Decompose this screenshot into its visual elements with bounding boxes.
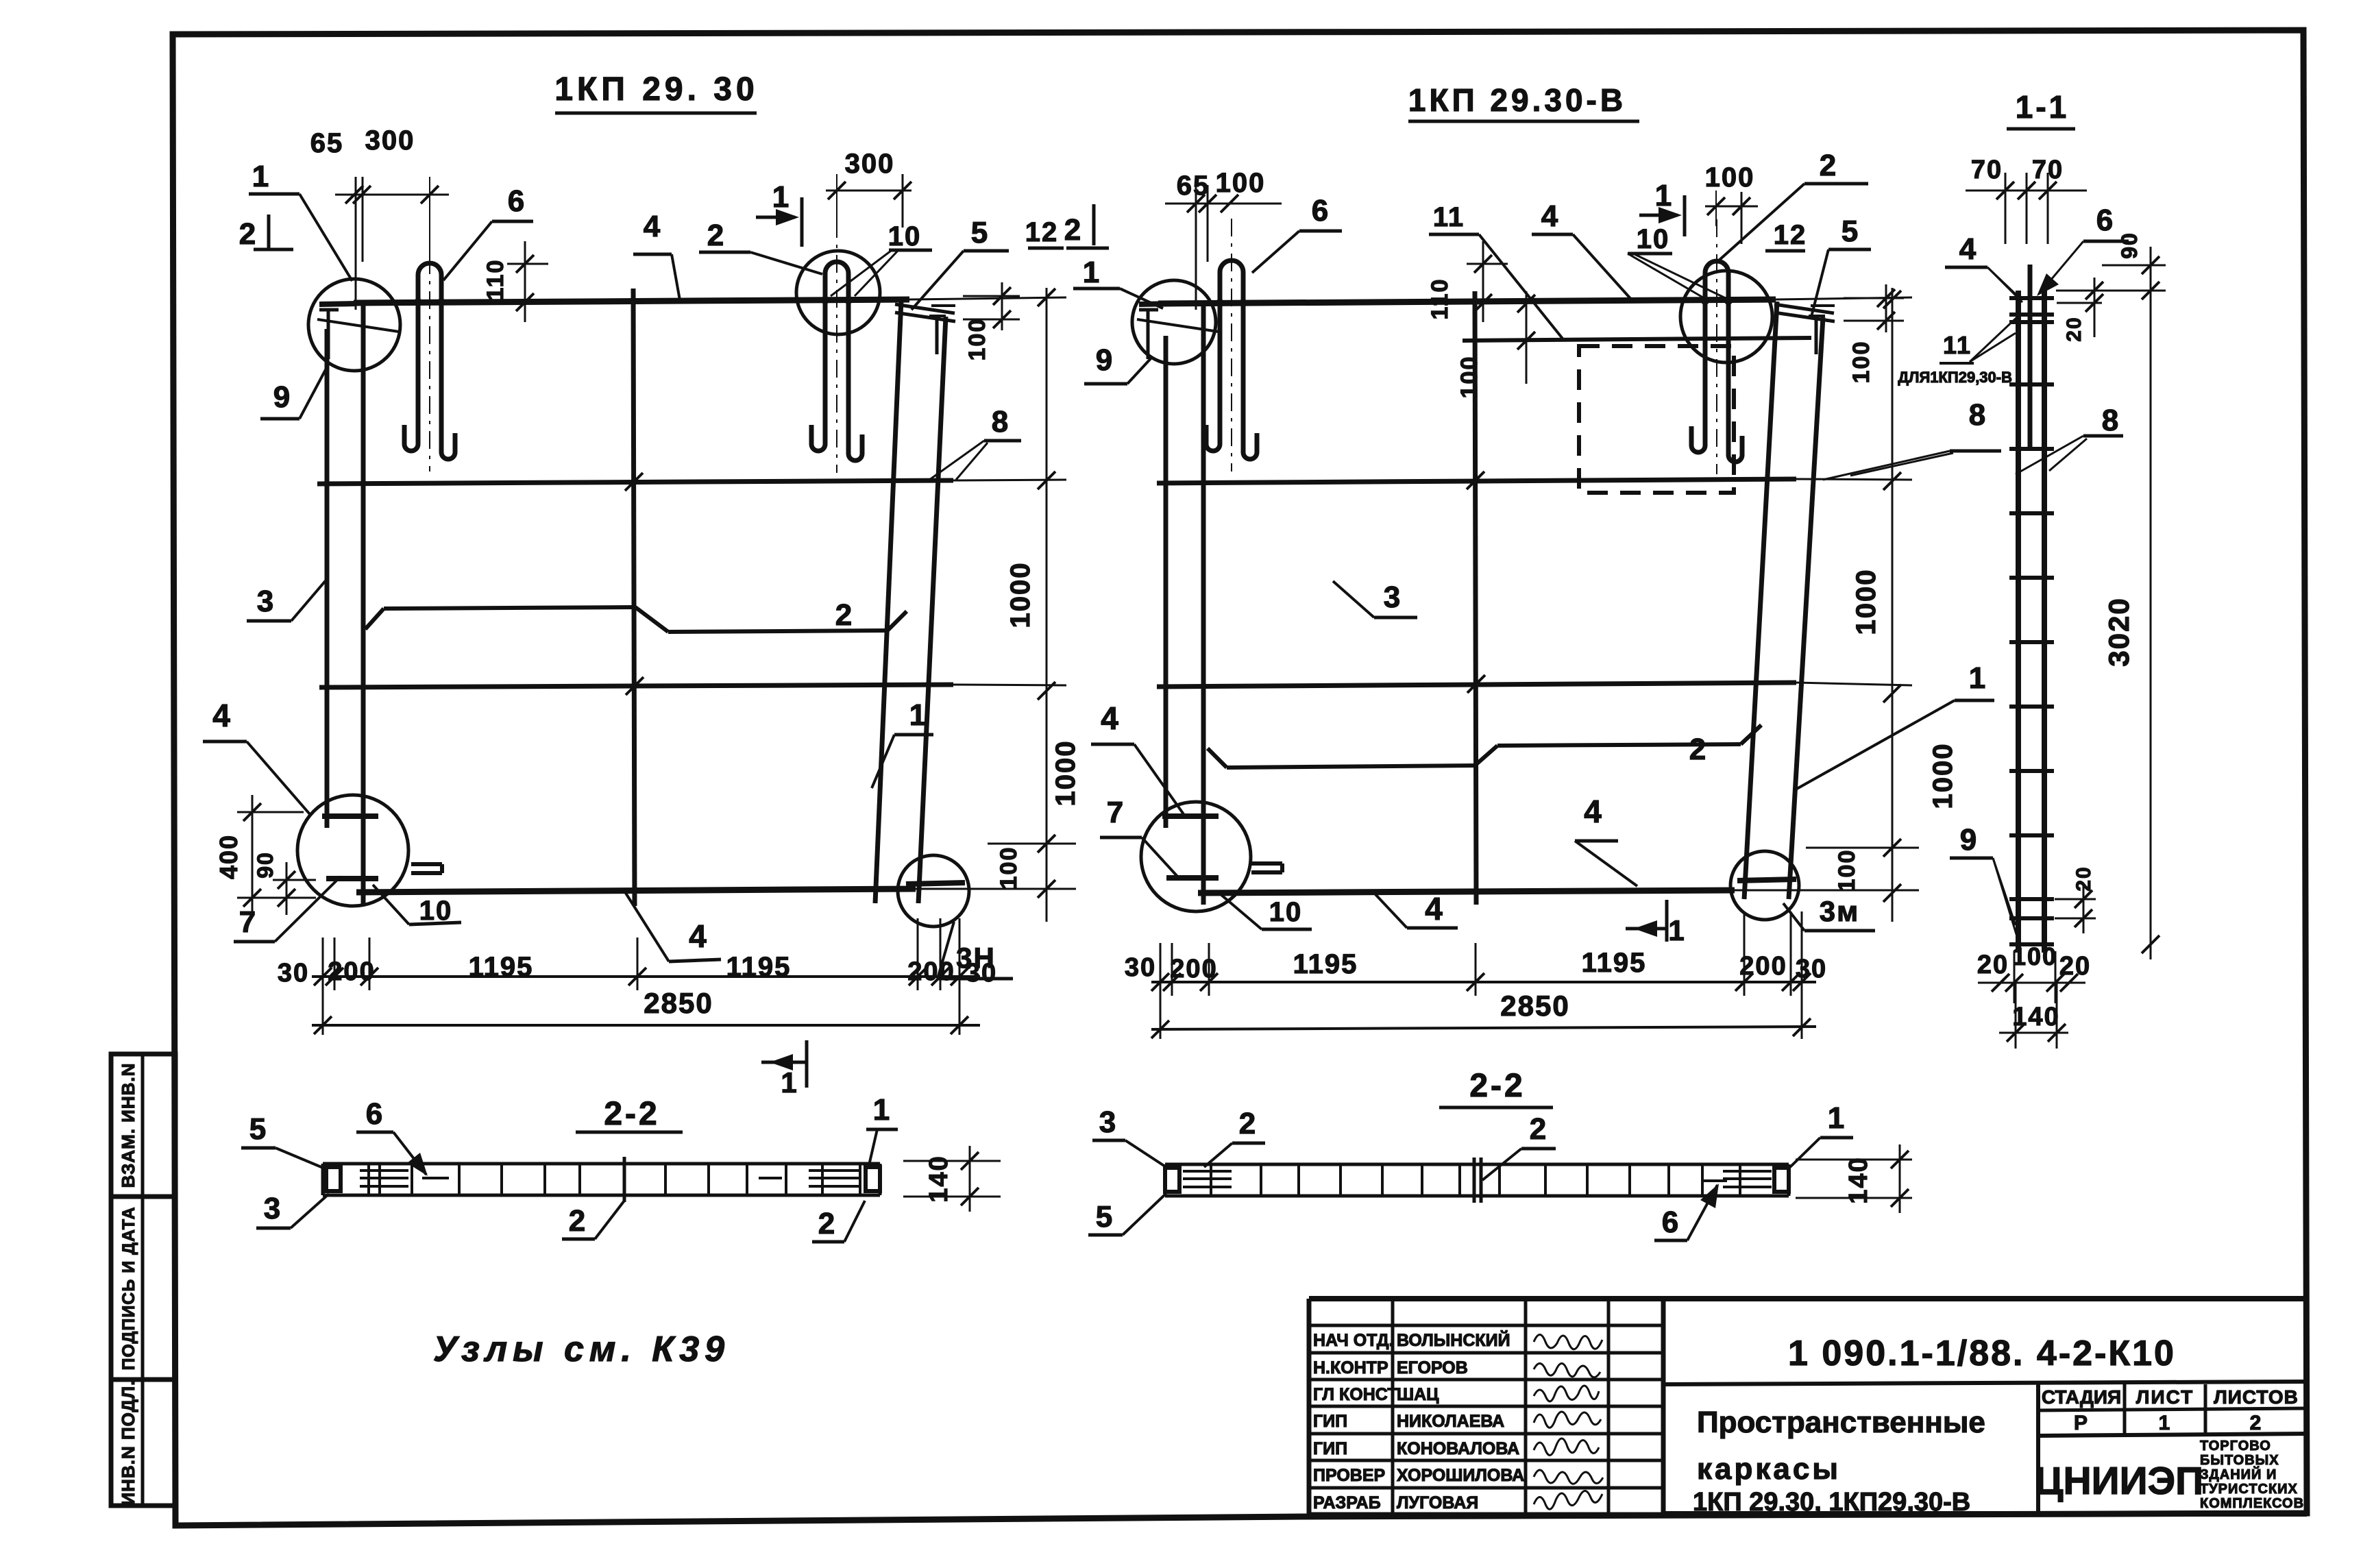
svg-text:100: 100 — [1834, 849, 1860, 892]
svg-text:1КП 29. 30: 1КП 29. 30 — [554, 71, 758, 108]
svg-text:10: 10 — [888, 221, 922, 252]
svg-text:2: 2 — [1530, 1112, 1547, 1146]
svg-text:4: 4 — [1584, 794, 1603, 829]
svg-text:400: 400 — [215, 834, 243, 879]
svg-text:11: 11 — [1943, 331, 1972, 359]
svg-text:110: 110 — [482, 259, 509, 301]
svg-text:2: 2 — [835, 598, 853, 632]
svg-text:3м: 3м — [1820, 895, 1859, 927]
svg-text:30: 30 — [1125, 953, 1156, 982]
svg-text:1000: 1000 — [1051, 740, 1081, 807]
svg-text:140: 140 — [1844, 1156, 1873, 1203]
svg-text:СТАДИЯ: СТАДИЯ — [2042, 1386, 2121, 1408]
svg-text:65: 65 — [310, 128, 344, 158]
svg-text:1: 1 — [1828, 1101, 1846, 1135]
svg-text:2: 2 — [707, 219, 725, 252]
svg-text:1195: 1195 — [726, 952, 792, 982]
svg-text:100: 100 — [996, 846, 1022, 890]
svg-text:5: 5 — [1841, 215, 1859, 248]
svg-text:8: 8 — [992, 405, 1009, 439]
svg-text:5: 5 — [1096, 1200, 1114, 1234]
svg-text:2: 2 — [1064, 213, 1082, 247]
svg-text:300: 300 — [365, 125, 415, 156]
svg-text:Р: Р — [2074, 1412, 2089, 1434]
svg-text:6: 6 — [366, 1097, 384, 1131]
svg-text:11: 11 — [1433, 202, 1465, 232]
svg-text:ТУРИСТСКИХ: ТУРИСТСКИХ — [2200, 1482, 2298, 1497]
svg-text:4: 4 — [689, 918, 708, 954]
svg-text:3: 3 — [257, 585, 275, 618]
svg-text:ПРОВЕР: ПРОВЕР — [1313, 1466, 1385, 1485]
svg-text:каркасы: каркасы — [1697, 1452, 1841, 1486]
svg-text:9: 9 — [273, 380, 291, 414]
svg-text:4: 4 — [1541, 199, 1559, 233]
svg-text:6: 6 — [2096, 204, 2114, 237]
svg-text:ИНВ.N ПОДЛ.: ИНВ.N ПОДЛ. — [118, 1380, 138, 1505]
svg-text:100: 100 — [2012, 942, 2057, 970]
svg-text:3: 3 — [264, 1192, 282, 1225]
svg-text:ГИП: ГИП — [1313, 1439, 1347, 1458]
svg-text:КОМПЛЕКСОВ: КОМПЛЕКСОВ — [2200, 1496, 2304, 1511]
svg-text:1: 1 — [781, 1066, 798, 1099]
svg-text:2: 2 — [1689, 733, 1707, 766]
svg-text:12: 12 — [1774, 220, 1807, 250]
svg-text:Пространственные: Пространственные — [1697, 1406, 1985, 1439]
svg-text:9: 9 — [1096, 343, 1114, 377]
svg-text:ЕГОРОВ: ЕГОРОВ — [1397, 1358, 1468, 1377]
svg-text:7: 7 — [239, 905, 257, 939]
svg-text:ГЛ КОНСТ: ГЛ КОНСТ — [1313, 1385, 1398, 1404]
svg-text:1000: 1000 — [1928, 743, 1958, 809]
svg-text:4: 4 — [1101, 700, 1120, 736]
svg-text:1: 1 — [1655, 179, 1673, 212]
svg-text:90: 90 — [2117, 232, 2142, 259]
svg-text:1: 1 — [1668, 914, 1685, 946]
svg-text:200: 200 — [907, 957, 955, 986]
svg-text:ДЛЯ1КП29,30-В: ДЛЯ1КП29,30-В — [1898, 369, 2012, 386]
svg-text:9: 9 — [1960, 823, 1978, 857]
svg-text:1КП 29.30-В: 1КП 29.30-В — [1408, 82, 1626, 118]
svg-text:Н.КОНТР: Н.КОНТР — [1313, 1358, 1388, 1377]
svg-text:5: 5 — [971, 216, 989, 249]
svg-text:200: 200 — [1739, 952, 1787, 981]
svg-text:12: 12 — [1025, 217, 1059, 247]
svg-text:1: 1 — [909, 698, 927, 732]
svg-text:1195: 1195 — [1293, 949, 1358, 979]
svg-text:ПОДПИСЬ И ДАТА: ПОДПИСЬ И ДАТА — [119, 1206, 138, 1370]
svg-text:4: 4 — [1425, 891, 1444, 927]
svg-text:ГИП: ГИП — [1313, 1412, 1347, 1431]
svg-text:2: 2 — [818, 1207, 836, 1240]
svg-text:10: 10 — [1637, 224, 1670, 254]
svg-text:110: 110 — [1427, 278, 1453, 320]
svg-text:8: 8 — [1969, 398, 1987, 432]
svg-text:КОНОВАЛОВА: КОНОВАЛОВА — [1397, 1439, 1519, 1458]
svg-text:1 090.1-1/88. 4-2-К10: 1 090.1-1/88. 4-2-К10 — [1788, 1334, 2176, 1373]
svg-text:6: 6 — [508, 184, 526, 218]
svg-text:140: 140 — [925, 1155, 953, 1202]
svg-text:ЗДАНИЙ И: ЗДАНИЙ И — [2200, 1466, 2277, 1482]
svg-text:1000: 1000 — [1005, 562, 1036, 628]
svg-text:ЛИСТ: ЛИСТ — [2136, 1386, 2194, 1408]
svg-text:300: 300 — [845, 149, 895, 179]
svg-text:1: 1 — [252, 160, 270, 193]
svg-text:200: 200 — [328, 957, 375, 986]
svg-text:20: 20 — [1977, 951, 2009, 979]
svg-text:100: 100 — [964, 318, 990, 361]
svg-text:2850: 2850 — [1500, 990, 1569, 1022]
svg-text:БЫТОВЫХ: БЫТОВЫХ — [2200, 1453, 2279, 1468]
svg-text:3: 3 — [1099, 1105, 1117, 1139]
svg-text:1-1: 1-1 — [2016, 89, 2069, 125]
svg-text:2-2: 2-2 — [604, 1096, 659, 1132]
svg-text:1000: 1000 — [1851, 569, 1881, 635]
svg-text:1КП 29.30, 1КП29,30-В: 1КП 29.30, 1КП29,30-В — [1693, 1488, 1970, 1517]
svg-text:6: 6 — [1312, 194, 1330, 228]
svg-text:РАЗРАБ: РАЗРАБ — [1313, 1493, 1381, 1512]
svg-text:8: 8 — [2102, 404, 2120, 437]
svg-text:2: 2 — [569, 1204, 587, 1238]
svg-text:1: 1 — [1969, 661, 1987, 695]
svg-text:2-2: 2-2 — [1469, 1068, 1525, 1104]
svg-text:10: 10 — [1269, 897, 1303, 927]
svg-text:1195: 1195 — [469, 952, 534, 982]
svg-text:100: 100 — [1456, 356, 1482, 399]
svg-text:2: 2 — [1820, 149, 1837, 182]
svg-text:Узлы см. К39: Узлы см. К39 — [433, 1330, 730, 1369]
svg-text:ТОРГОВО: ТОРГОВО — [2200, 1438, 2271, 1454]
svg-text:200: 200 — [1170, 955, 1217, 983]
svg-text:2: 2 — [239, 217, 257, 251]
svg-text:30: 30 — [1796, 955, 1827, 983]
svg-text:100: 100 — [1848, 341, 1874, 384]
svg-text:ЛИСТОВ: ЛИСТОВ — [2214, 1386, 2299, 1408]
svg-text:3020: 3020 — [2103, 597, 2135, 666]
svg-text:ЦНИИЭП: ЦНИИЭП — [2035, 1459, 2203, 1503]
svg-text:ШАЦ: ШАЦ — [1397, 1385, 1439, 1404]
svg-text:30: 30 — [966, 959, 997, 988]
svg-text:1: 1 — [873, 1093, 891, 1127]
svg-text:1195: 1195 — [1582, 948, 1647, 978]
svg-text:2: 2 — [2250, 1412, 2263, 1434]
svg-text:НАЧ ОТД.: НАЧ ОТД. — [1313, 1331, 1394, 1350]
svg-text:20: 20 — [2063, 316, 2085, 341]
svg-text:20: 20 — [2072, 866, 2095, 891]
svg-text:90: 90 — [253, 851, 278, 879]
svg-text:1: 1 — [772, 180, 790, 214]
svg-text:100: 100 — [1705, 162, 1755, 193]
svg-text:5: 5 — [249, 1112, 267, 1146]
svg-text:ЛУГОВАЯ: ЛУГОВАЯ — [1397, 1493, 1478, 1512]
svg-text:6: 6 — [1662, 1205, 1680, 1239]
svg-text:100: 100 — [1216, 168, 1266, 198]
svg-text:70: 70 — [1971, 156, 2003, 184]
svg-text:НИКОЛАЕВА: НИКОЛАЕВА — [1397, 1412, 1504, 1431]
svg-text:4: 4 — [1959, 232, 1977, 266]
svg-text:ВЗАМ. ИНВ.N: ВЗАМ. ИНВ.N — [118, 1063, 138, 1188]
svg-text:7: 7 — [1107, 796, 1125, 829]
svg-text:2: 2 — [1239, 1107, 1257, 1140]
svg-text:4: 4 — [212, 698, 232, 733]
svg-text:1: 1 — [1083, 256, 1101, 289]
svg-text:ВОЛЫНСКИЙ: ВОЛЫНСКИЙ — [1397, 1330, 1510, 1350]
svg-text:4: 4 — [644, 210, 661, 243]
svg-text:ХОРОШИЛОВА: ХОРОШИЛОВА — [1397, 1466, 1524, 1485]
svg-text:1: 1 — [2159, 1412, 2172, 1434]
svg-text:2850: 2850 — [644, 987, 713, 1019]
svg-text:3: 3 — [1384, 580, 1402, 614]
svg-text:30: 30 — [278, 959, 309, 988]
